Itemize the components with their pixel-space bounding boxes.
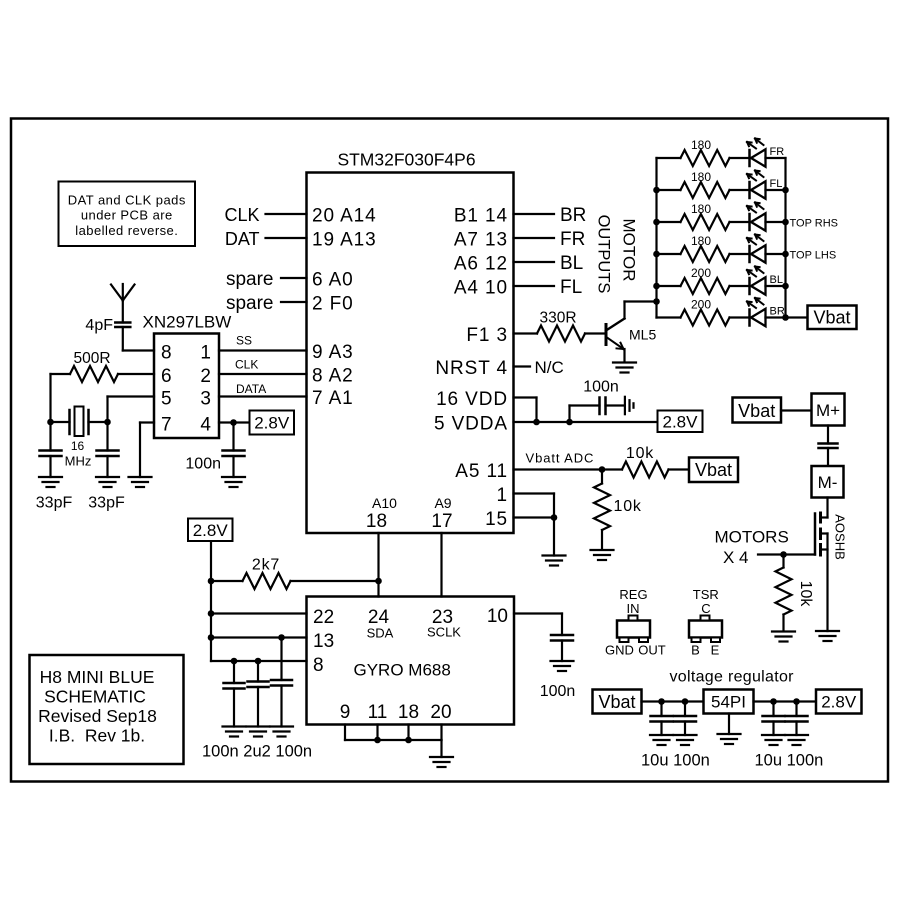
svg-text:N/C: N/C <box>535 358 564 377</box>
svg-text:A9: A9 <box>434 495 451 511</box>
svg-text:H8 MINI BLUE: H8 MINI BLUE <box>40 667 155 687</box>
svg-text:SCLK: SCLK <box>427 625 461 640</box>
svg-text:Vbat: Vbat <box>598 692 635 712</box>
svg-text:16 VDD: 16 VDD <box>436 389 508 410</box>
svg-text:8 A2: 8 A2 <box>312 366 354 387</box>
svg-text:5: 5 <box>161 389 172 410</box>
svg-text:IN: IN <box>627 601 640 616</box>
svg-text:FR: FR <box>560 229 585 250</box>
svg-text:DAT: DAT <box>225 229 260 249</box>
svg-text:180: 180 <box>691 170 711 184</box>
svg-text:18: 18 <box>398 702 419 723</box>
svg-text:FR: FR <box>770 146 785 158</box>
svg-text:20 A14: 20 A14 <box>312 206 377 227</box>
svg-text:200: 200 <box>691 266 711 280</box>
svg-text:BL: BL <box>770 274 783 286</box>
svg-text:2.8V: 2.8V <box>663 413 699 432</box>
svg-text:180: 180 <box>691 138 711 152</box>
svg-text:BR: BR <box>770 306 785 318</box>
svg-text:6 A0: 6 A0 <box>312 270 354 291</box>
svg-text:10u 100n: 10u 100n <box>641 752 710 770</box>
svg-text:180: 180 <box>691 234 711 248</box>
svg-text:FL: FL <box>560 277 582 298</box>
svg-text:4pF: 4pF <box>85 317 113 334</box>
svg-text:spare: spare <box>226 293 274 314</box>
svg-text:9: 9 <box>340 702 351 723</box>
svg-text:9 A3: 9 A3 <box>312 342 354 363</box>
svg-text:10u 100n: 10u 100n <box>755 752 824 770</box>
svg-text:BL: BL <box>560 253 583 274</box>
svg-text:2.8V: 2.8V <box>193 521 229 540</box>
svg-text:spare: spare <box>226 269 274 290</box>
svg-text:Vbatt ADC: Vbatt ADC <box>526 451 595 466</box>
svg-text:XN297LBW: XN297LBW <box>143 313 232 332</box>
svg-text:TOP LHS: TOP LHS <box>790 249 837 261</box>
svg-text:2 F0: 2 F0 <box>312 294 354 315</box>
svg-text:180: 180 <box>691 202 711 216</box>
svg-text:10k: 10k <box>626 445 654 462</box>
svg-text:Vbat: Vbat <box>813 308 850 328</box>
svg-text:1: 1 <box>497 485 508 506</box>
svg-text:10: 10 <box>487 606 508 627</box>
svg-text:TOP RHS: TOP RHS <box>790 217 839 229</box>
svg-text:DATA: DATA <box>236 382 266 396</box>
svg-text:11: 11 <box>368 702 388 723</box>
svg-text:A7 13: A7 13 <box>454 230 508 251</box>
svg-text:SCHEMATIC: SCHEMATIC <box>44 687 146 707</box>
svg-text:CLK: CLK <box>235 358 258 372</box>
svg-text:7: 7 <box>161 415 172 436</box>
svg-text:200: 200 <box>691 298 711 312</box>
svg-text:F1 3: F1 3 <box>466 325 508 346</box>
svg-text:4: 4 <box>200 415 211 436</box>
svg-text:STM32F030F4P6: STM32F030F4P6 <box>337 150 475 170</box>
svg-text:A6 12: A6 12 <box>454 254 508 275</box>
svg-text:Revised Sep18: Revised Sep18 <box>38 706 157 726</box>
svg-text:10k: 10k <box>614 498 642 515</box>
svg-text:100n: 100n <box>185 456 221 473</box>
svg-text:CLK: CLK <box>224 205 259 225</box>
svg-text:REG: REG <box>619 587 647 602</box>
svg-text:19 A13: 19 A13 <box>312 230 377 251</box>
svg-text:E: E <box>711 643 720 658</box>
svg-text:500R: 500R <box>73 350 110 367</box>
svg-text:15: 15 <box>485 509 508 530</box>
svg-text:33pF: 33pF <box>88 495 125 512</box>
svg-text:MOTORS: MOTORS <box>715 528 789 547</box>
svg-text:FL: FL <box>770 178 783 190</box>
svg-text:AOSHB: AOSHB <box>833 514 848 560</box>
svg-text:Vbat: Vbat <box>738 401 775 421</box>
svg-text:10k: 10k <box>797 581 814 608</box>
svg-text:17: 17 <box>431 511 452 532</box>
svg-text:5 VDDA: 5 VDDA <box>434 414 508 435</box>
svg-text:M+: M+ <box>816 401 840 420</box>
svg-text:C: C <box>701 601 710 616</box>
svg-text:NRST 4: NRST 4 <box>435 358 508 379</box>
svg-text:DAT and CLK pads: DAT and CLK pads <box>68 193 186 208</box>
svg-text:18: 18 <box>366 511 387 532</box>
svg-text:MOTOR: MOTOR <box>620 219 639 282</box>
svg-text:B1 14: B1 14 <box>454 206 508 227</box>
svg-text:A5 11: A5 11 <box>455 461 508 482</box>
svg-text:under PCB are: under PCB are <box>81 208 173 223</box>
svg-text:6: 6 <box>161 366 172 387</box>
svg-text:20: 20 <box>430 702 451 723</box>
svg-text:MHz: MHz <box>65 454 92 469</box>
svg-text:BR: BR <box>560 205 586 226</box>
svg-text:54PI: 54PI <box>711 693 746 712</box>
svg-text:GYRO M688: GYRO M688 <box>354 661 451 680</box>
svg-text:OUT: OUT <box>638 643 666 658</box>
svg-text:SS: SS <box>236 334 252 348</box>
svg-text:330R: 330R <box>539 310 576 327</box>
svg-text:2k7: 2k7 <box>252 557 280 574</box>
svg-text:100n: 100n <box>583 379 619 396</box>
svg-text:100n 2u2 100n: 100n 2u2 100n <box>202 743 312 761</box>
svg-text:Vbat: Vbat <box>695 460 732 480</box>
svg-text:labelled reverse.: labelled reverse. <box>75 223 178 238</box>
svg-text:A4 10: A4 10 <box>454 278 508 299</box>
svg-text:ML5: ML5 <box>629 327 656 343</box>
svg-text:8: 8 <box>313 655 324 676</box>
svg-text:1: 1 <box>200 343 211 364</box>
svg-text:7 A1: 7 A1 <box>312 388 354 409</box>
svg-text:2.8V: 2.8V <box>821 693 857 712</box>
svg-text:OUTPUTS: OUTPUTS <box>595 215 613 294</box>
svg-text:13: 13 <box>313 631 334 652</box>
svg-text:A10: A10 <box>372 495 397 511</box>
svg-text:GND: GND <box>605 643 634 658</box>
svg-text:voltage regulator: voltage regulator <box>670 669 795 686</box>
svg-text:100n: 100n <box>540 683 576 700</box>
svg-text:B: B <box>691 643 700 658</box>
svg-text:TSR: TSR <box>693 587 719 602</box>
svg-text:8: 8 <box>161 343 172 364</box>
svg-text:X 4: X 4 <box>723 548 749 567</box>
svg-text:2.8V: 2.8V <box>254 414 290 433</box>
svg-text:SDA: SDA <box>367 626 394 641</box>
svg-text:I.B. Rev 1b.: I.B. Rev 1b. <box>49 726 145 746</box>
svg-text:2: 2 <box>200 366 211 387</box>
svg-text:16: 16 <box>71 439 85 453</box>
svg-text:33pF: 33pF <box>36 495 73 512</box>
svg-text:22: 22 <box>313 607 334 628</box>
svg-text:M-: M- <box>818 473 838 492</box>
svg-text:3: 3 <box>200 389 211 410</box>
